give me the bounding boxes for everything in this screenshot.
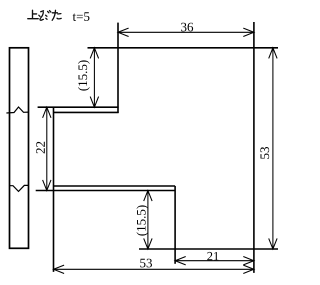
title hiragana ぶ bbox=[39, 11, 51, 21]
outline upper step edge bbox=[38, 106, 119, 108]
outline lower step inner line bbox=[53, 185, 175, 187]
side view break line lower bbox=[10, 185, 29, 191]
dimension line (15.5) lower bbox=[144, 191, 152, 250]
dimension line 22 left bbox=[43, 107, 51, 190]
outline right edge with extensions bbox=[253, 22, 255, 273]
outline top edge with extensions bbox=[88, 47, 279, 49]
outline lower step vertical edge with extension bbox=[174, 186, 176, 264]
side view break line upper bbox=[6, 107, 28, 113]
dimension line 36 top bbox=[118, 28, 254, 36]
title kanji 上 bbox=[28, 10, 38, 18]
label dimension text (15.5) lower bbox=[136, 205, 148, 235]
outline bottom edge with extensions bbox=[139, 248, 278, 250]
side view plate outline bbox=[10, 48, 29, 249]
label dimension text 53 bottom bbox=[140, 259, 152, 268]
dimension line 53 bottom bbox=[54, 265, 254, 273]
label dimension text (15.5) upper bbox=[78, 60, 90, 90]
label dimension text 21 bbox=[207, 252, 218, 260]
outline lower step edge bbox=[36, 190, 175, 192]
dimension line 21 bottom bbox=[175, 257, 254, 265]
label dimension text 36 bbox=[181, 23, 193, 32]
title hiragana た bbox=[52, 10, 61, 20]
dimension line (15.5) upper bbox=[90, 48, 98, 107]
outline upper step inner line bbox=[53, 111, 119, 113]
label dimension text 22 bbox=[36, 142, 45, 154]
outline upper-left vertical edge bbox=[117, 23, 119, 113]
label title text t=5 bbox=[73, 12, 90, 21]
outline left edge with extension bbox=[53, 107, 55, 272]
dimension line 53 right bbox=[269, 48, 277, 249]
label dimension text 53 right bbox=[260, 147, 269, 159]
